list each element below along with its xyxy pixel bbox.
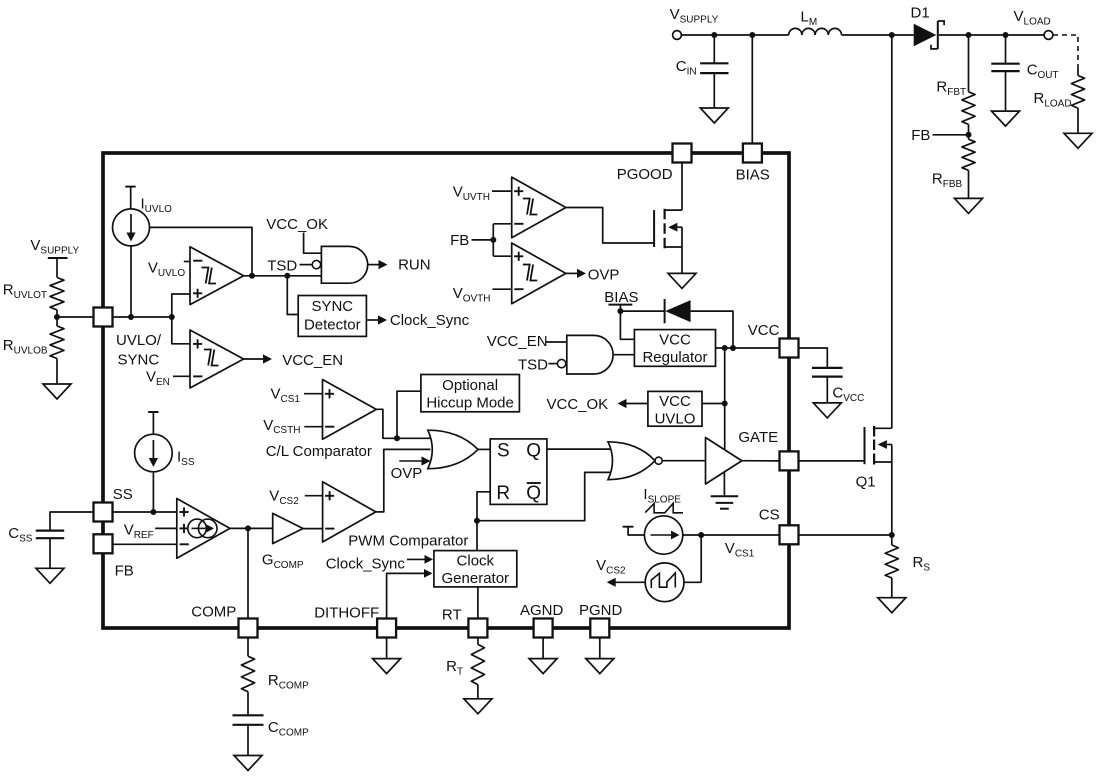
svg-text:Generator: Generator (442, 570, 510, 587)
node VCC_EN output (left) (244, 352, 343, 369)
pin SS (94, 486, 133, 522)
capacitor CSS (8, 512, 93, 568)
svg-text:Optional: Optional (442, 377, 498, 394)
svg-text:FB: FB (911, 127, 930, 144)
wire latch R / clock node (474, 492, 490, 551)
wire LM to D1 (842, 34, 914, 36)
wire VCC UVLO to VCC rail (702, 403, 725, 405)
ground under RFBB (955, 198, 983, 213)
node OVP output (566, 267, 620, 284)
pin UVLO/SYNC (94, 308, 162, 369)
ground under CIN (700, 108, 728, 123)
resistor RT external (446, 638, 484, 699)
wire VUVTH to PGOOD fet gate (566, 208, 654, 244)
wire to VCS2 generator (700, 535, 702, 582)
current source ISS (135, 412, 195, 512)
svg-text:VCC: VCC (748, 322, 780, 339)
diode BIAS-VCC (620, 299, 733, 348)
resistor RCOMP (241, 638, 309, 716)
wire DITHOFF to clock generator (387, 569, 433, 619)
ground under CSS (36, 568, 64, 583)
resistor RLOAD (1034, 68, 1085, 133)
wire hiccup connector (397, 391, 421, 438)
svg-text:TSD: TSD (267, 258, 297, 275)
pin FB (left) (94, 534, 134, 579)
wire clock to NOR gate (477, 472, 613, 520)
svg-text:CS: CS (759, 507, 780, 524)
block Clock Generator (434, 551, 517, 587)
comparator VEN (schmitt) (146, 330, 244, 388)
svg-text:RT: RT (442, 607, 462, 624)
wire latch Q to NOR gate (547, 448, 611, 450)
or-gate U-SET (428, 430, 478, 469)
ground under RS (878, 598, 906, 613)
wire VCC regulator to VCC pin (716, 345, 780, 351)
wire OR to latch S (478, 448, 490, 450)
capacitor COUT (991, 35, 1058, 111)
svg-text:Hiccup Mode: Hiccup Mode (426, 395, 514, 412)
wire COMP node down (247, 528, 249, 618)
node FB internal (450, 224, 512, 256)
svg-text:GATE: GATE (738, 429, 778, 446)
svg-text:D1: D1 (911, 5, 930, 22)
resistor RUVLOB (3, 317, 64, 384)
node RUN output (368, 256, 431, 273)
svg-text:SYNC: SYNC (311, 298, 353, 315)
node BIAS supply (internal) (604, 289, 638, 314)
svg-text:Q: Q (526, 440, 541, 461)
junction RFBT node (966, 32, 972, 38)
wire C/L output to OR gate (376, 409, 430, 441)
transistor Q1 (856, 426, 892, 535)
block VCC UVLO (648, 391, 702, 427)
ground under CCOMP (234, 756, 262, 771)
svg-text:VCC_OK: VCC_OK (547, 396, 609, 413)
svg-text:PGOOD: PGOOD (617, 166, 673, 183)
node TSD input (right, inverted) (518, 357, 566, 374)
ground under RT (464, 699, 492, 714)
svg-text:TSD: TSD (518, 357, 548, 374)
wire CS pin to RS (799, 532, 895, 538)
comparator VUVLO (schmitt) (148, 247, 244, 305)
pin CS (759, 507, 799, 545)
junction UVLO divider node (54, 314, 94, 320)
svg-text:BIAS: BIAS (604, 289, 638, 306)
comparator VUVTH (schmitt) (453, 177, 566, 238)
node VCS2 input (PWM) (269, 488, 322, 507)
inductor LM (789, 9, 842, 36)
wire VUVLO output (244, 273, 322, 279)
pin PGND (579, 602, 623, 638)
svg-text:S: S (497, 440, 510, 461)
ground under CVCC (813, 403, 841, 418)
svg-text:R: R (496, 483, 510, 504)
diode D1 (schottky) (911, 5, 945, 49)
nor-gate U-DRV (608, 442, 662, 480)
node VCS1 label (725, 540, 755, 559)
transistor PGOOD pulldown (654, 163, 682, 274)
svg-text:DITHOFF: DITHOFF (314, 605, 379, 622)
current source ISLOPE (623, 486, 683, 554)
wire IUVLO to comparator output (149, 227, 252, 275)
ground under PGND (586, 638, 614, 674)
pin PGOOD (617, 144, 692, 184)
svg-text:OVP: OVP (588, 267, 620, 284)
svg-text:VCC: VCC (659, 393, 691, 410)
svg-text:Detector: Detector (304, 317, 361, 334)
resistor RFBT (936, 35, 975, 139)
block VCC Regulator (634, 330, 715, 367)
svg-text:AGND: AGND (520, 602, 564, 619)
node VSUPPLY terminal (top) (670, 6, 719, 39)
svg-text:RUN: RUN (398, 256, 431, 273)
pin RT (442, 607, 488, 638)
pin GATE (738, 429, 798, 470)
capacitor CCOMP (233, 715, 310, 755)
ground under AGND (529, 638, 557, 674)
pin COMP (191, 604, 257, 638)
wire VCC to driver (722, 348, 728, 450)
junction Q1 drain node (889, 32, 895, 38)
svg-text:COMP: COMP (191, 604, 236, 621)
comparator PWM (323, 482, 469, 550)
buffer GCOMP (262, 513, 304, 571)
node VSUPPLY (left) (30, 237, 79, 278)
ground driver (signal) (711, 472, 739, 509)
ground under DITHOFF (373, 638, 401, 674)
pin DITHOFF (314, 605, 396, 638)
junction COUT node (1003, 32, 1009, 38)
block SYNC Detector (298, 296, 366, 337)
ground under RUVLOB (43, 384, 71, 399)
node Clock_Sync output (366, 312, 469, 329)
svg-text:SYNC: SYNC (118, 352, 160, 369)
node OVP input arrow (391, 456, 431, 482)
svg-text:PWM Comparator: PWM Comparator (348, 532, 468, 549)
wire D1 to VLOAD (939, 34, 1044, 36)
wire UVLO node to VUVLO plus (172, 294, 190, 317)
block Optional Hiccup Mode (421, 375, 520, 412)
node VCS1 input (C/L) (271, 386, 323, 405)
svg-text:Q: Q (526, 483, 541, 504)
svg-text:UVLO/: UVLO/ (116, 332, 162, 349)
svg-text:Q1: Q1 (856, 474, 876, 491)
resistor RFBB (932, 139, 975, 198)
wire error amp output (230, 525, 273, 531)
wire BIAS to VCC regulator (620, 311, 634, 339)
node FB divider (911, 127, 971, 144)
svg-text:SS: SS (113, 486, 133, 503)
current source IUVLO (113, 187, 173, 317)
capacitor CVCC (799, 348, 865, 404)
wire comparator to SYNC detector (287, 276, 298, 315)
wire BIAS node to BIAS pin (751, 35, 753, 144)
resistor RS (885, 535, 930, 598)
svg-text:VCC: VCC (659, 332, 691, 349)
svg-text:PGND: PGND (579, 602, 623, 619)
wire GATE pin to Q1 (799, 460, 865, 462)
svg-text:VCC_EN: VCC_EN (282, 352, 343, 369)
svg-text:Clock_Sync: Clock_Sync (390, 312, 470, 329)
op-amp U-ERROR (gm amp) (177, 499, 230, 559)
wire driver to GATE pin (742, 460, 780, 462)
wire dashed VLOAD to RLOAD (1053, 35, 1078, 68)
wire Q1 drain vertical (891, 35, 893, 428)
wire VSUPPLY rail to LM (681, 34, 788, 36)
node Clock_Sync input (326, 555, 433, 572)
node VCC_EN input (right) (487, 333, 567, 350)
ground under COUT (992, 111, 1020, 126)
waveform source VCS2 (645, 563, 701, 602)
IC body outline (103, 153, 789, 628)
flip-flop SR latch (490, 439, 547, 505)
resistor RUVLOT (3, 278, 64, 318)
node VCSTH input (263, 417, 322, 436)
wire FB pin to error amp (113, 543, 177, 545)
comparator VOVTH (schmitt) (453, 243, 566, 305)
svg-text:FB: FB (450, 232, 469, 249)
node VCC_OK input (266, 216, 328, 253)
svg-text:VCC_OK: VCC_OK (266, 216, 328, 233)
svg-text:Clock: Clock (457, 553, 495, 570)
pin AGND (520, 602, 564, 638)
svg-text:C/L Comparator: C/L Comparator (266, 443, 372, 460)
ground under RLOAD (1064, 133, 1092, 148)
svg-text:FB: FB (115, 563, 134, 580)
junction BIAS node (749, 32, 755, 38)
wire ISLOPE to CS pin (683, 532, 780, 538)
pin VCC (748, 322, 799, 358)
and-gate U-RUN (321, 246, 367, 283)
wire NOR to driver (662, 460, 705, 462)
junction CIN node (711, 32, 717, 38)
wire UVLO pin to comparators (113, 314, 175, 320)
pin BIAS (736, 144, 770, 184)
node VREF input (124, 522, 177, 541)
wire PWM output to OR gate (376, 449, 431, 512)
wire GCOMP to PWM comparator (303, 528, 323, 530)
node VCS2 output arrow (596, 557, 645, 587)
and-gate U-VCCEN (567, 335, 613, 374)
wire UVLO node to VEN plus (172, 317, 190, 344)
svg-text:BIAS: BIAS (736, 167, 770, 184)
ground under PGOOD fet (668, 273, 696, 288)
svg-text:Clock_Sync: Clock_Sync (326, 555, 406, 572)
svg-text:OVP: OVP (391, 465, 423, 482)
wire gate to VCC regulator (613, 354, 634, 356)
comparator C/L (266, 380, 377, 461)
buffer gate driver (706, 438, 742, 485)
svg-text:UVLO: UVLO (655, 410, 696, 427)
svg-text:VCC_EN: VCC_EN (487, 333, 548, 350)
node VLOAD terminal (1014, 8, 1053, 39)
wire SS pin to error amp (113, 509, 177, 515)
wire clock generator to RT pin (477, 587, 479, 619)
node VCC_OK output (547, 396, 648, 413)
capacitor CIN (676, 35, 729, 108)
node TSD input (inverted) (267, 258, 320, 275)
svg-text:Regulator: Regulator (642, 349, 707, 366)
